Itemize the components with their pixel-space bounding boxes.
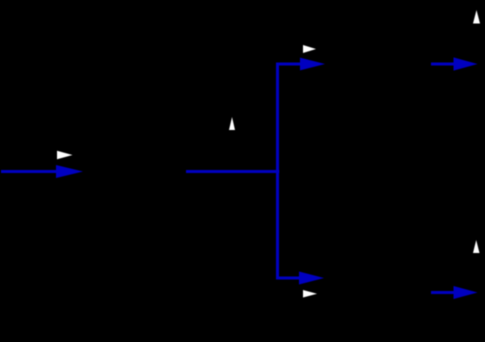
wire W3: branch line from junction to top and bottom blocks (278, 64, 303, 278)
arrowhead: wire W3 into block B3 input port (299, 272, 324, 285)
wire W1: input signal into block B1 (1, 170, 59, 173)
white port marker: block B2 input (303, 45, 316, 53)
arrowhead: wire W1 into block B1 input port (56, 165, 83, 178)
arrowhead: wire W3 into block B2 input port (300, 58, 325, 71)
white port marker: Out2 up arrow (473, 240, 480, 253)
wire W4: block B2 output signal (431, 63, 455, 66)
white port marker: block B1 input (57, 151, 73, 159)
white port marker: branch mid up arrow (229, 117, 235, 130)
white port marker: Out1 up arrow (473, 10, 480, 24)
wire W2: block B1 output to branch junction (186, 170, 279, 173)
arrowhead: wire W4 into output port Out1 (454, 57, 478, 70)
white port marker: block B3 input (303, 290, 317, 298)
wire W5: block B3 output signal (431, 291, 455, 294)
arrowhead: wire W5 into output port Out2 (454, 286, 478, 299)
